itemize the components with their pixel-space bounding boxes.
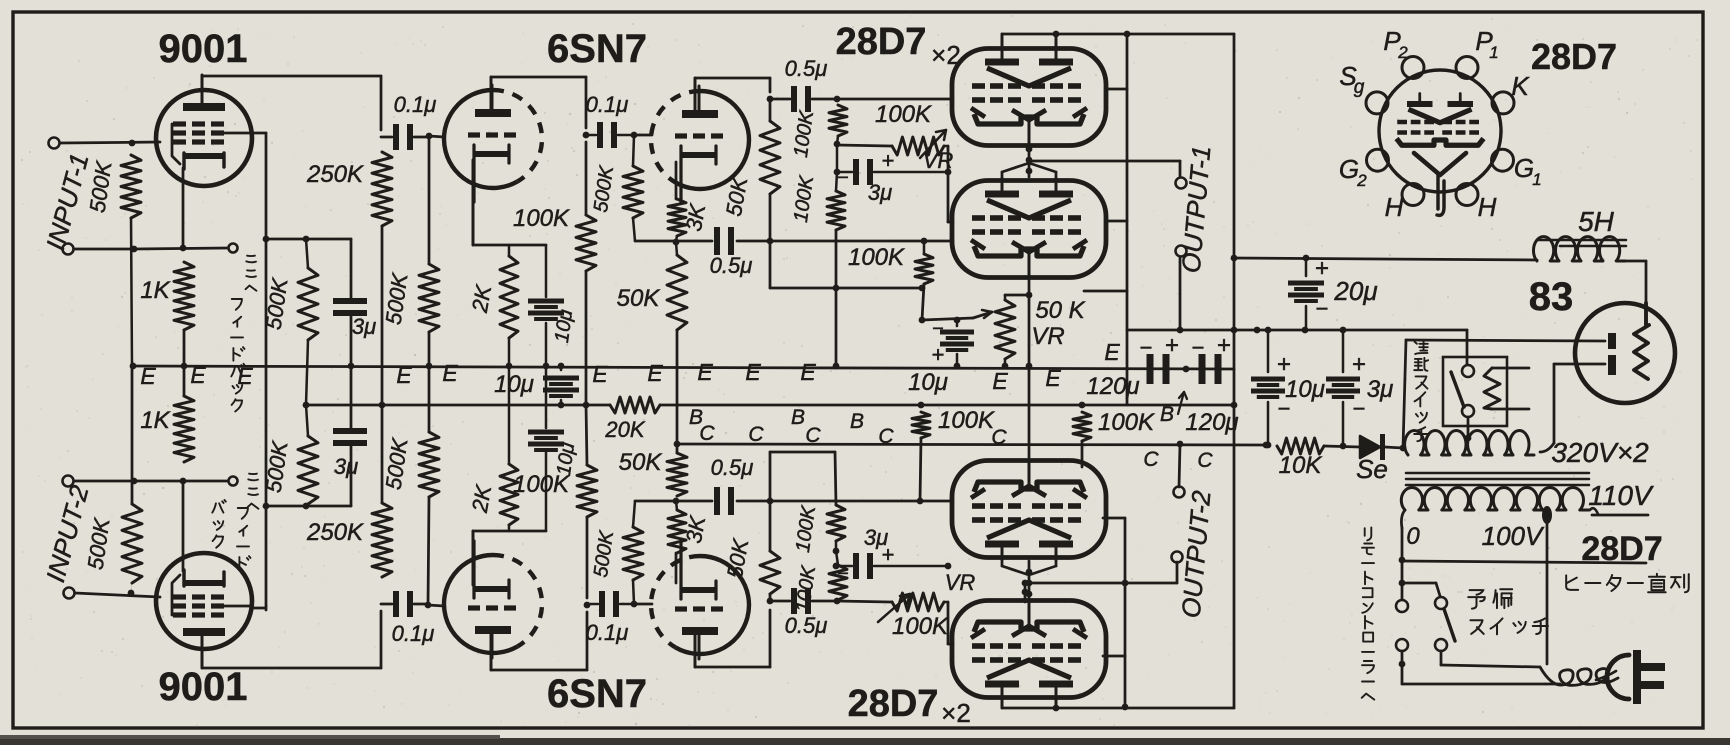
- wire V6 screen right: [1103, 655, 1125, 658]
- svg-text:−: −: [837, 167, 849, 189]
- svg-text:0.5μ: 0.5μ: [711, 455, 754, 480]
- svg-text:20K: 20K: [604, 417, 645, 442]
- resistor 100K grid-1 upper: [829, 105, 847, 136]
- wire y452 down to 100K: [835, 452, 836, 505]
- capacitor 3u filter: [1342, 330, 1345, 372]
- wire to pot lower: [837, 601, 892, 602]
- wire 500K grid leak to E: [428, 332, 431, 366]
- svg-text:E: E: [396, 362, 412, 388]
- tube 83 rectifier: [1575, 303, 1675, 403]
- svg-text:28D7: 28D7: [848, 683, 939, 725]
- wire 6SN7a lower cathode: [472, 531, 475, 585]
- arrow VR wiper lower: [878, 594, 910, 622]
- resistor 500K screen lower: [306, 504, 308, 506]
- resistor 50K bias chain lower: [667, 453, 687, 496]
- tube 9001 upper (V1): [156, 90, 252, 186]
- switch contacts delay: [1462, 365, 1474, 377]
- twisted pair to plug: [1540, 667, 1618, 685]
- wire y501 coupling line (bottom driver grid line): [635, 500, 712, 503]
- terminal input-1 ground: [63, 244, 74, 255]
- svg-text:6SN7: 6SN7: [547, 672, 647, 716]
- svg-text:3μ: 3μ: [868, 180, 892, 205]
- svg-text:100K: 100K: [513, 205, 570, 232]
- svg-text:+: +: [882, 148, 895, 173]
- wire y239 screen line: [266, 238, 351, 241]
- svg-text:100K: 100K: [1098, 409, 1155, 436]
- wire 50K to y241: [769, 194, 772, 241]
- svg-text:0: 0: [1406, 523, 1420, 550]
- capacitor 10u cathode bypass lower: [545, 452, 548, 531]
- resistor 3K cathode 6SN7b: [668, 199, 686, 236]
- spare switch lever: [1444, 609, 1455, 641]
- wire V5 plates merge to mid node: [1001, 557, 1004, 566]
- capacitor 0.1u (V2 plate coupling): [393, 591, 399, 617]
- svg-text:2K: 2K: [467, 282, 497, 315]
- svg-text:3μ: 3μ: [334, 454, 358, 479]
- relay coil leads: [1492, 367, 1529, 370]
- wire y288 link: [770, 287, 922, 290]
- wire OUTPUT-1 tap y161: [1029, 160, 1180, 163]
- wire y258 choke feed: [1234, 258, 1537, 260]
- wire y241 coupling line (top driver grid line): [635, 240, 712, 243]
- svg-text:E: E: [237, 363, 253, 389]
- node 100K-2 E: [833, 363, 840, 370]
- svg-text:9001: 9001: [159, 27, 248, 71]
- label spare switch (suicchi): [1470, 620, 1483, 634]
- label heater series (hi-ta chokuretsu): [1566, 575, 1578, 589]
- node wiper y320: [919, 317, 926, 324]
- tube 28D7 V3 (upper-1): [952, 49, 1106, 146]
- wire relay to HV center tap: [1467, 417, 1470, 437]
- svg-text:B: B: [850, 410, 864, 433]
- wire 500K screen lower to B+: [306, 405, 308, 436]
- svg-text:E: E: [800, 359, 816, 385]
- node 50K y241: [767, 238, 774, 245]
- secondary 100V tap: [1542, 506, 1552, 524]
- wire 100K-2 down to E: [835, 230, 838, 366]
- node 3u junction lower: [833, 548, 840, 555]
- terminal input-1 hot: [49, 138, 60, 149]
- svg-text:−: −: [932, 318, 944, 340]
- svg-text:C: C: [991, 426, 1007, 449]
- svg-text:3μ: 3μ: [1367, 376, 1394, 403]
- potentiometer 50K VR (hum balance): [995, 300, 1015, 359]
- wire x132 vertical (input gnd tie): [131, 218, 133, 249]
- tube base diagram 28D7 pinout: [1379, 70, 1501, 192]
- label delay switch (chidou switch): [1415, 340, 1428, 354]
- terminal input-2 ground: [63, 476, 74, 487]
- wire 9001 cathode to 1K: [182, 168, 185, 248]
- wire rail up to 0.1u node bottom: [380, 611, 383, 668]
- resistor 3K cathode lower: [668, 510, 686, 553]
- svg-text:120μ: 120μ: [1185, 409, 1238, 436]
- svg-text:E: E: [140, 363, 156, 389]
- svg-text:C: C: [748, 423, 764, 446]
- capacitor 0.5u interstage (y501): [714, 487, 720, 515]
- svg-text:1: 1: [1489, 43, 1498, 62]
- resistor 100K grid-2 upper: [827, 191, 845, 230]
- wire top rail y34: [1002, 33, 1234, 36]
- node between 120u caps: [1183, 366, 1190, 373]
- wire grid entry 6SN7b: [634, 134, 652, 137]
- wire OUTPUT-2 tap y583: [1029, 582, 1177, 585]
- wire feedback tap: [134, 248, 228, 249]
- resistor 500K input-1 grid: [121, 155, 141, 218]
- capacitor 10u cathode bypass upper: [545, 245, 548, 297]
- resistor 100K driver upper (y241 to wiper): [921, 238, 928, 245]
- wire 83 plate feed upper: [1406, 340, 1605, 341]
- node plate 6SN7a: [583, 132, 590, 139]
- svg-text:20μ: 20μ: [1333, 276, 1377, 306]
- node 100K B+: [583, 402, 590, 409]
- wire 9001 lower cathode to 1K: [182, 481, 185, 571]
- wire 83 plate feed lower: [1554, 363, 1605, 366]
- terminal feedback lower: [229, 477, 238, 486]
- svg-text:5H: 5H: [1578, 206, 1615, 237]
- node 6SN7b lower grid: [631, 601, 638, 608]
- resistor 20K (B+ dropping): [610, 397, 660, 413]
- node input-2 gnd tie: [131, 478, 138, 485]
- node y288 end: [919, 285, 926, 292]
- terminal input-2 hot: [64, 588, 75, 599]
- node chain C bus: [674, 441, 681, 448]
- wire V3 plate stubs to top rail: [1001, 34, 1004, 49]
- wire input-2 hot to grid: [75, 593, 160, 597]
- relay coil: [1484, 368, 1500, 409]
- wire feedback tap lower: [134, 480, 228, 483]
- wire grid entry 6SN7a lower: [428, 605, 444, 606]
- svg-text:+: +: [1165, 332, 1179, 359]
- svg-text:83: 83: [1529, 275, 1574, 319]
- resistor 100K grid-4 lower: [829, 565, 847, 600]
- node 100K grid divider top: [834, 96, 841, 103]
- tube 9001 lower (V2): [156, 553, 252, 649]
- capacitor 0.5u interstage (y241): [714, 227, 720, 255]
- wire 100K to wiper node: [922, 284, 924, 320]
- wire input-2 ground: [74, 480, 134, 483]
- resistor 500K grid leak 6SN7b: [633, 135, 634, 166]
- wire y330 to relay switch: [1466, 330, 1469, 364]
- wire 500K 6SN7b to y241: [633, 218, 635, 241]
- svg-text:+: +: [1217, 332, 1231, 359]
- terminal OUTPUT-2 lower: [1172, 552, 1183, 563]
- wire 250K lower to B+: [381, 405, 384, 503]
- wire 250K to B+: [381, 226, 384, 405]
- wire V6 plate stubs to bottom rail: [1001, 697, 1004, 708]
- capacitor 3u screen bypass upper: [350, 239, 353, 299]
- svg-text:100K: 100K: [848, 244, 905, 271]
- label remote controller (rimo-to kontoro-ra-he): [1365, 528, 1372, 541]
- capacitor 0.1u coupling lower: [599, 591, 605, 617]
- wire 100K to B+: [585, 271, 588, 405]
- svg-text:H: H: [1478, 192, 1497, 222]
- svg-text:0.5μ: 0.5μ: [710, 253, 753, 278]
- svg-text:E: E: [745, 359, 761, 385]
- svg-text:2: 2: [1397, 43, 1408, 62]
- svg-text:0.1μ: 0.1μ: [586, 92, 629, 117]
- resistor 50K lower from plate node: [760, 551, 780, 594]
- node screen net y506: [263, 503, 270, 510]
- svg-text:3μ: 3μ: [352, 314, 376, 339]
- svg-text:E: E: [1104, 339, 1120, 365]
- wire x1554 to HV winding end: [1553, 364, 1556, 443]
- wire V6 cathode to OUTPUT-2 line: [1024, 583, 1027, 602]
- svg-text:9001: 9001: [159, 665, 248, 709]
- svg-text:2K: 2K: [467, 482, 497, 515]
- wire 3u lower to E: [350, 366, 353, 429]
- diode Se selenium: [1324, 446, 1360, 447]
- node 100K divider bottom: [834, 598, 841, 605]
- svg-text:1: 1: [1532, 170, 1541, 189]
- svg-text:100V: 100V: [1482, 521, 1545, 551]
- svg-text:10μ: 10μ: [1285, 376, 1325, 403]
- node E at x132: [130, 363, 137, 370]
- wire wiper to 50K VR: [922, 318, 973, 320]
- wire 100K lower to B+: [586, 405, 587, 465]
- node chain between V3 V4: [1026, 146, 1033, 153]
- wire 6SN7a cathode: [472, 160, 475, 245]
- wire input-2 hot short: [131, 583, 132, 593]
- node Se to transformer: [1400, 445, 1407, 452]
- wire 0-tap down to spare switch: [1399, 580, 1406, 587]
- node plate 6SN7a lower: [584, 602, 591, 609]
- svg-text:100K: 100K: [938, 407, 995, 434]
- node box top crossings: [1177, 327, 1184, 334]
- tube 6SN7 B lower: [676, 556, 750, 654]
- spare switch upper contacts: [1396, 600, 1408, 612]
- wire x1127 screen bus: [1126, 34, 1129, 330]
- wire 9001 screen lead: [252, 132, 266, 135]
- arrow VR wiper upper: [920, 130, 946, 158]
- wire 500K screen to B+: [306, 340, 308, 405]
- wire choke to 83: [1625, 260, 1646, 263]
- resistor 250K upper (V1 plate load): [372, 152, 392, 226]
- svg-text:E: E: [697, 359, 713, 385]
- node x948 lower: [945, 563, 952, 570]
- wire y506 screen line lower: [266, 505, 351, 508]
- secondary 110V end: [1590, 508, 1598, 514]
- wire input-1 ground: [74, 248, 134, 251]
- resistor 100K B-to-driver lower-left: [912, 412, 930, 438]
- wire screen V4 right: [1106, 220, 1127, 223]
- wire 100K x921 to y501: [920, 438, 921, 501]
- svg-text:B: B: [1160, 403, 1174, 426]
- svg-text:110V: 110V: [1588, 480, 1654, 511]
- svg-text:1K: 1K: [140, 277, 170, 304]
- resistor 100K plate load lower: [586, 517, 589, 598]
- wire heater line y562: [1399, 557, 1406, 564]
- svg-text:C: C: [1197, 449, 1213, 472]
- wire box left x1127: [1126, 330, 1129, 405]
- node cathode/feedback lower: [180, 478, 187, 485]
- node 0.5u lower: [767, 598, 774, 605]
- node 3K/50K junction y241: [676, 236, 677, 241]
- tube 28D7 V5 (lower-1): [952, 461, 1106, 558]
- wire grid entry 6SN7b lower: [634, 603, 652, 606]
- node E grid leak junction: [426, 363, 433, 370]
- node 6SN7b grid: [631, 132, 638, 139]
- tube 6SN7 A upper: [444, 90, 518, 188]
- wire box top y330: [1127, 329, 1467, 332]
- plug: [1607, 655, 1629, 699]
- wire 9001 lower plate to rail: [201, 647, 204, 668]
- node x948 3u junction: [945, 169, 952, 176]
- wire 6SN7b lower plate rail: [694, 633, 697, 667]
- node 500K screen top: [303, 236, 310, 243]
- wire 100K x1082 into tube3: [1081, 441, 1084, 467]
- spare switch lower contacts: [1396, 639, 1408, 651]
- node 3K/50K junction y501: [676, 501, 677, 510]
- svg-text:E: E: [647, 360, 663, 386]
- svg-text:2: 2: [1356, 171, 1367, 190]
- transformer secondary winding: [1401, 487, 1589, 510]
- node after 0.1u: [426, 133, 433, 140]
- svg-text:50K: 50K: [617, 285, 661, 312]
- node after 0.1u bottom: [425, 602, 432, 609]
- tube 6SN7b lower cathode to 3K: [675, 553, 678, 583]
- resistor 500K screen upper: [306, 239, 308, 268]
- svg-text:3μ: 3μ: [864, 525, 888, 550]
- svg-text:120μ: 120μ: [1086, 373, 1139, 400]
- wire x770 y241-y288: [769, 241, 772, 288]
- tube 6SN7 B upper: [676, 91, 750, 189]
- wire x1029 mid column: [1028, 295, 1031, 461]
- wire B+ bus right segment: [660, 404, 1234, 407]
- resistor 500K input-2 grid: [122, 504, 142, 583]
- svg-text:E: E: [442, 360, 458, 386]
- resistor 100K plate load 6SN7a: [585, 142, 588, 215]
- svg-text:50 K: 50 K: [1035, 297, 1085, 324]
- wire 10u to E: [545, 323, 548, 366]
- transformer core lines: [1406, 472, 1589, 475]
- svg-text:0.1μ: 0.1μ: [394, 92, 437, 117]
- resistor 1K (V2 cathode): [174, 396, 194, 462]
- node cathode/feedback: [180, 245, 187, 252]
- svg-text:K: K: [1511, 71, 1530, 101]
- svg-text:28D7: 28D7: [836, 21, 927, 63]
- capacitor 10u filter: [1267, 330, 1270, 372]
- svg-text:250K: 250K: [306, 519, 364, 546]
- terminal feedback upper: [229, 244, 238, 253]
- resistor 500K grid leak 6SN7a: [428, 136, 431, 264]
- wire pot lower to 28D7-4 grid: [944, 601, 948, 604]
- resistor 2K cathode lower: [508, 525, 511, 531]
- wire cathode y531: [473, 530, 546, 533]
- wire x1234 main B vertical: [1233, 34, 1236, 708]
- wire bottom line to plug: [1402, 683, 1545, 686]
- wire 3u to E: [350, 315, 353, 366]
- node y288 crossing: [833, 285, 840, 292]
- svg-text:100K: 100K: [875, 101, 932, 128]
- transformer HV primary winding 320Vx2: [1405, 431, 1534, 455]
- svg-text:VR: VR: [945, 570, 976, 595]
- capacitor 0.1u coupling 6SN7a-b: [597, 122, 603, 148]
- svg-text:+: +: [1352, 351, 1366, 378]
- node B+ left end: [303, 402, 310, 409]
- svg-text:−: −: [1353, 396, 1366, 421]
- svg-text:g: g: [1354, 77, 1365, 98]
- capacitor 3u grid-2 upper: [836, 144, 839, 172]
- capacitor 3u screen bypass lower: [350, 445, 353, 506]
- wire screen bus x266 to bottom: [265, 239, 268, 506]
- potentiometer 100K VR upper: [892, 137, 944, 155]
- svg-text:+: +: [1315, 255, 1329, 282]
- svg-text:E: E: [190, 362, 206, 388]
- wire to 100K VR pot: [837, 145, 892, 146]
- arrow B pointer: [1178, 392, 1184, 414]
- choke 5H winding: [1533, 237, 1625, 261]
- svg-text:+: +: [932, 342, 945, 367]
- wire x1125 bus lower: [1124, 518, 1127, 707]
- svg-text:Se: Se: [1356, 454, 1388, 484]
- resistor 50K bias chain upper: [667, 255, 687, 330]
- svg-text:VR: VR: [1031, 323, 1064, 350]
- svg-text:H: H: [1385, 192, 1404, 222]
- wire 2K lower to E: [508, 366, 511, 464]
- svg-text:0.5μ: 0.5μ: [785, 613, 828, 638]
- wire 50K chain lower to C bus: [676, 444, 679, 453]
- node 500K screen top lower: [303, 503, 310, 510]
- wire 1K to E bus: [183, 330, 186, 366]
- wire input-1 ground junction: [131, 246, 138, 253]
- wire 50K lower to y501: [769, 501, 772, 551]
- wire y452 link: [770, 451, 835, 454]
- node screen net y239: [263, 236, 270, 243]
- wire screen V5 right: [1103, 517, 1125, 520]
- label koko-e feedback upper: [246, 256, 256, 263]
- wire grid entry 6SN7a: [429, 136, 444, 137]
- capacitor 0.5u coupling to 28D7-4 grid: [791, 588, 797, 614]
- svg-text:10K: 10K: [1279, 452, 1323, 479]
- capacitor 120u first: [1147, 354, 1154, 384]
- tube 6SN7 A lower: [444, 555, 518, 653]
- wire plate rail y76: [202, 75, 381, 78]
- wire x770 y501-y452: [769, 452, 772, 501]
- wire E bus: [132, 366, 1234, 369]
- svg-text:C: C: [699, 422, 715, 445]
- capacitor 0.5u coupling to 28D7 grid1: [791, 86, 797, 112]
- svg-text:0.5μ: 0.5μ: [785, 56, 828, 81]
- wire 10u lower to E: [545, 366, 548, 428]
- wire plate rail y668: [202, 667, 381, 670]
- svg-text:320V×2: 320V×2: [1551, 437, 1649, 468]
- svg-text:10μ: 10μ: [908, 369, 948, 396]
- svg-text:100K: 100K: [892, 613, 949, 640]
- capacitor 0.1u (V1 plate coupling): [393, 124, 399, 150]
- label koko-e feedback lower: [248, 474, 258, 481]
- resistor 1K (V1 cathode): [174, 262, 194, 330]
- svg-text:1K: 1K: [140, 407, 170, 434]
- resistor 10K: [1277, 438, 1324, 454]
- capacitor 3u grid-3 lower: [835, 551, 837, 566]
- node 0.5u upper: [767, 96, 774, 103]
- svg-text:B: B: [791, 406, 805, 429]
- wire input-1 hot to grid: [60, 142, 160, 143]
- node 100K bottom / VR line: [834, 141, 841, 148]
- svg-text:G: G: [1339, 154, 1359, 184]
- tube 6SN7b cathode to 3K: [675, 162, 678, 199]
- svg-text:28D7: 28D7: [1531, 36, 1617, 77]
- capacitor 120u second: [1199, 354, 1206, 384]
- label spare switch (yobi): [1468, 590, 1485, 608]
- wire 6SN7a lower plate rail: [490, 634, 493, 670]
- wire V4 plates merge to mid node: [1001, 172, 1004, 181]
- capacitor 10u B+ decoupling: [560, 366, 563, 370]
- terminal OUTPUT-1 upper: [1179, 161, 1182, 176]
- wire 2K to E: [508, 338, 511, 366]
- secondary left end 0 tap: [1401, 510, 1405, 528]
- wire 1K lower to E bus: [183, 366, 186, 396]
